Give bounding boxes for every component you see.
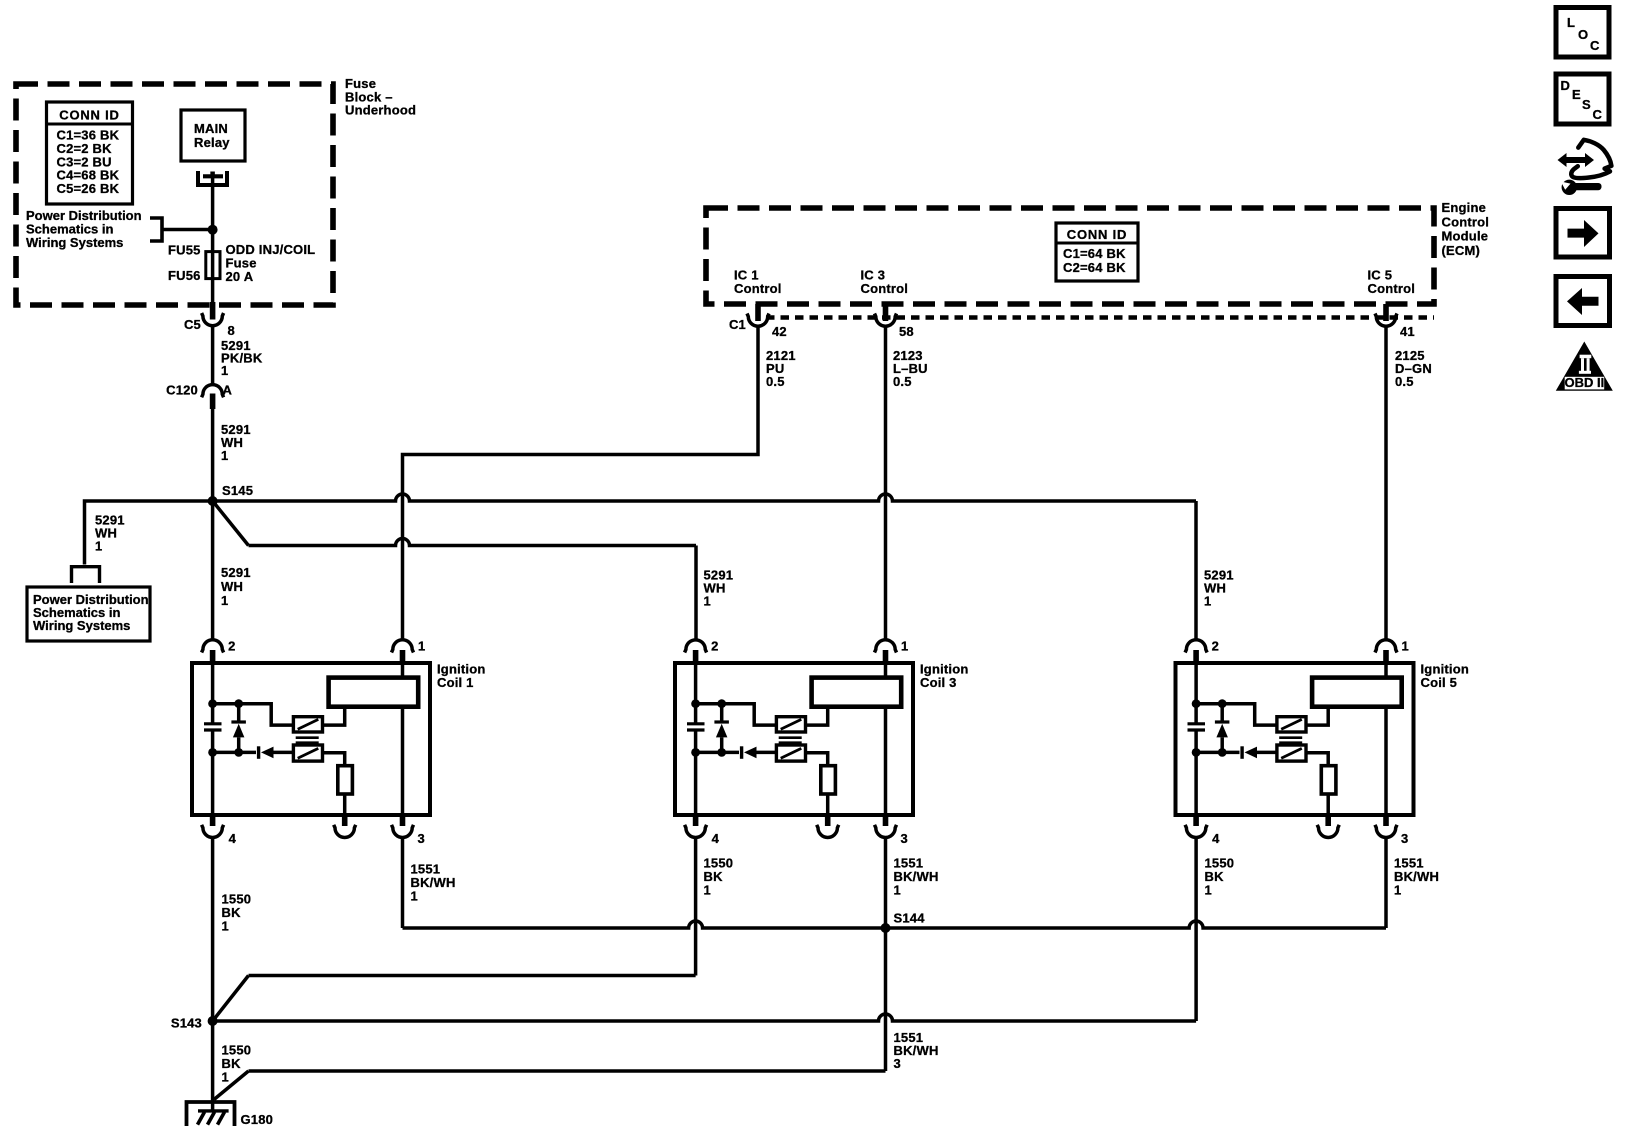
icon OBD II triangle [1556,342,1613,391]
wire driver 2 to sense resistor (coil 5) [1306,753,1328,766]
wire driver 2 to sense resistor (coil 3) [806,753,828,766]
power distribution reference bracket (bottom) [72,567,100,583]
svg-text:CONN ID: CONN ID [1067,227,1128,242]
svg-text:Wiring Systems: Wiring Systems [33,618,130,633]
wire relay terminal to junction [211,176,215,252]
fuse ODD INJ/COIL 20A symbol [206,252,220,279]
ignition coil 5 middle pin connector [1325,814,1331,826]
svg-text:C: C [1593,107,1603,122]
ignition coil 3 pin 4 connector [693,814,699,826]
capacitor (coil 3) [687,722,705,725]
node dots on supply wire (coil 5) [1192,699,1201,708]
ignition coil 1 pin 3 connector [400,814,406,826]
svg-text:Underhood: Underhood [345,103,416,118]
lower branch wire (coil 1) [213,751,256,755]
wire driver 2 to sense resistor (coil 1) [323,753,345,766]
main relay output terminal (U-bracket with T pin) [198,171,227,185]
ignition coil 5 internal supply wire pin2 [1194,663,1198,723]
svg-text:1: 1 [1204,594,1211,609]
wire 1550 BK coil3 pin4 down [694,837,698,975]
CONN ID table (fuse block) [47,102,133,204]
icon right arrow box [1556,209,1610,258]
driver module 1 (coil 3) [776,717,805,732]
node dots on supply wire (coil 1) [208,699,217,708]
ignition coil 3 box [675,663,913,815]
icon LOC box [1556,8,1609,58]
ignition coil 3 primary feed wire pin1 to winding [884,664,888,814]
zener diode (coil 5) [1220,704,1224,721]
svg-text:1: 1 [704,883,711,898]
svg-text:1: 1 [95,539,102,554]
node dots zener branch (coil 5) [1218,699,1227,708]
svg-text:58: 58 [899,324,914,339]
ignition coil 5 pin 1 connector [1375,640,1397,653]
ignition coil 5 pin 3 connector [1383,814,1389,826]
svg-text:1: 1 [221,363,228,378]
svg-text:C5=26 BK: C5=26 BK [57,181,120,196]
wire coil3 pin3 to S144 [884,837,888,928]
svg-text:Control: Control [1368,281,1416,296]
wire S145 left branch to power distribution reference [85,501,213,565]
interstage capacitor (coil 5) [1279,736,1302,739]
ignition coil 5 box [1176,663,1414,815]
driver module 2 (coil 1) [293,745,322,761]
svg-text:C120: C120 [166,383,198,398]
svg-text:0.5: 0.5 [1395,374,1414,389]
svg-text:2: 2 [228,639,235,654]
wire 1550 BK coil1 pin4 to S143 [211,837,215,1021]
svg-text:1: 1 [704,594,711,609]
wire 5291 PK/BK C5 to C120 [211,326,215,385]
svg-text:20 A: 20 A [226,269,254,284]
wire 5291 WH C120 to S145 [211,409,215,501]
svg-text:1: 1 [901,639,908,654]
wire coil5 pin3 down to 1551 run [1384,837,1388,928]
ECM pin 42 connector [755,304,761,321]
svg-text:Control: Control [734,281,782,296]
svg-text:0.5: 0.5 [766,374,785,389]
ignition coil 3 pin 2 connector [685,640,707,653]
wire supply node to driver 1 (coil 1) [213,704,294,725]
wire driver 1 to primary winding (coil 1) [323,707,345,725]
ECM pin 41 connector [1383,304,1389,321]
svg-text:C5: C5 [184,317,201,332]
connector C5 pin 8 [210,302,216,320]
svg-text:1: 1 [1205,883,1212,898]
wire fuse to connector C5 [211,279,215,303]
driver module 2 (coil 5) [1277,745,1306,761]
ignition coil 3 pin 3 connector [883,814,889,826]
wire S143 to coil5 pin4 (net 1550 BK) [213,1014,1197,1021]
interstage capacitor (coil 1) [296,736,319,739]
svg-text:CONN ID: CONN ID [59,108,120,123]
svg-text:C2=64 BK: C2=64 BK [1063,260,1126,275]
engine control module dashed box [706,208,1434,304]
svg-text:Control: Control [861,281,909,296]
diode (coil 1) [257,746,260,759]
driver module 1 (coil 5) [1277,717,1306,732]
svg-text:1: 1 [222,1070,229,1085]
ignition coil 5 primary feed wire pin1 to winding [1384,664,1388,814]
sense resistor (coil 5) [1321,766,1336,794]
svg-text:E: E [1572,87,1581,102]
ignition coil 1 pin 1 connector [392,640,414,653]
ignition coil 1 primary feed wire pin1 to winding [401,664,405,814]
power distribution schematics box [27,587,150,641]
svg-text:Relay: Relay [194,135,230,150]
svg-text:S145: S145 [222,483,253,498]
svg-text:42: 42 [772,324,787,339]
svg-text:Wiring Systems: Wiring Systems [26,235,123,250]
node dots zener branch (coil 1) [234,699,243,708]
wire S145 diagonal to coil 3 branch [213,501,249,546]
icon service tool (double arrow, panel outline, wrench) [1558,153,1595,167]
primary winding box (coil 1) [329,678,419,707]
svg-text:4: 4 [229,831,237,846]
wire supply node to driver 1 (coil 5) [1196,704,1277,725]
wire S145 to ignition coil 5 pin 2 (net 5291 WH) [213,494,1196,501]
svg-text:1: 1 [411,889,418,904]
interstage capacitor (coil 3) [779,736,802,739]
zener diode (coil 1) [237,704,241,721]
wire S144 down to 1551 BK/WH 3 run [884,928,888,1071]
svg-text:G180: G180 [241,1112,274,1127]
ignition coil 1 pin 2 connector [202,640,224,653]
ECM connector C1 dotted boundary line [766,315,1434,320]
svg-text:4: 4 [712,831,720,846]
svg-text:Coil 3: Coil 3 [920,675,957,690]
icon left arrow box [1556,277,1610,326]
driver module 1 (coil 1) [293,717,322,732]
svg-text:Engine: Engine [1442,200,1487,215]
wire coil3 pin4 run to S143 [249,974,696,978]
svg-text:O: O [1578,27,1588,42]
svg-text:A: A [223,383,233,398]
svg-text:S143: S143 [171,1016,202,1031]
svg-text:S: S [1582,97,1591,112]
svg-text:1: 1 [222,919,229,934]
svg-text:4: 4 [1212,831,1220,846]
svg-text:2: 2 [711,639,718,654]
MAIN Relay box [181,110,245,161]
diode (coil 5) [1240,746,1243,759]
svg-text:C: C [1590,38,1600,53]
svg-text:3: 3 [894,1056,901,1071]
wire 1550 BK S143 to ground G180 [211,1021,215,1111]
wire S145 to ignition coil 1 pin 2 [211,501,215,640]
capacitor (coil 1) [204,722,222,725]
wire driver 1 to primary winding (coil 5) [1306,707,1328,725]
diode (coil 3) [740,746,743,759]
ignition coil 1 box [192,663,430,815]
ground G180 symbol [187,1102,235,1126]
ignition coil 3 pin 1 connector [875,640,897,653]
net 1551 BK/WH 3 run to ground [249,1069,886,1073]
svg-text:1: 1 [1394,883,1401,898]
svg-text:S144: S144 [894,911,926,926]
svg-text:Control: Control [1442,214,1490,229]
svg-text:MAIN: MAIN [194,121,228,136]
ignition coil 1 pin 4 connector [210,814,216,826]
splice S144 [881,923,891,933]
svg-text:WH: WH [221,579,243,594]
splice S143 [208,1016,218,1026]
svg-text:0.5: 0.5 [893,374,912,389]
power distribution reference bracket (top) [150,218,162,241]
ignition coil 3 internal supply wire pin2 [694,663,698,723]
ignition coil 3 middle pin connector [825,814,831,826]
CONN ID table (ECM) [1056,223,1138,281]
node dots on supply wire (coil 3) [691,699,700,708]
fuse block underhood dashed box [16,84,333,305]
svg-text:2: 2 [1212,639,1219,654]
wire driver 1 to primary winding (coil 3) [806,707,828,725]
svg-text:D: D [1561,78,1571,93]
svg-text:8: 8 [228,323,235,338]
ignition coil 1 internal supply wire pin2 [211,663,215,723]
primary winding box (coil 5) [1312,678,1402,707]
primary winding box (coil 3) [812,678,902,707]
connector C120 pin A [202,385,224,398]
svg-text:1: 1 [1402,639,1409,654]
sense resistor (coil 1) [338,766,353,794]
lower branch wire (coil 5) [1196,751,1239,755]
wire resistor to middle pin (coil 5) [1326,794,1330,814]
svg-text:Coil 1: Coil 1 [437,675,474,690]
wire to ignition coil 3 pin 2 (net 5291 WH) [249,539,697,546]
svg-text:FU56: FU56 [168,268,201,283]
wire resistor to middle pin (coil 1) [343,794,347,814]
svg-text:L: L [1567,15,1575,30]
splice S145 [208,496,218,506]
sense resistor (coil 3) [821,766,836,794]
svg-text:OBD II: OBD II [1565,375,1605,390]
zener diode (coil 3) [720,704,724,721]
wire 2125 D-GN pin41 to coil5 pin1 [1384,326,1388,640]
driver module 2 (coil 3) [776,745,805,761]
wire 2123 L-BU pin58 to coil3 pin1 [884,326,888,640]
wire 1551 BK/WH coil1 pin3 to S144 run [401,837,405,928]
wire supply node to driver 1 (coil 3) [696,704,777,725]
svg-text:C1: C1 [729,317,746,332]
ignition coil 1 middle pin connector [342,814,348,826]
svg-text:1: 1 [221,448,228,463]
net 1551 horizontal run coil1-S144-coil5 [403,921,1387,928]
icon DESC box [1556,74,1609,124]
ignition coil 5 pin 2 connector [1185,640,1207,653]
wire 2121 PU pin42 to coil1 pin1 [403,326,759,640]
svg-text:5291: 5291 [221,565,251,580]
wire resistor to middle pin (coil 3) [826,794,830,814]
svg-text:C1=64 BK: C1=64 BK [1063,246,1126,261]
svg-text:Coil 5: Coil 5 [1421,675,1458,690]
svg-text:41: 41 [1400,324,1415,339]
svg-text:1: 1 [221,593,228,608]
svg-text:Module: Module [1442,229,1489,244]
capacitor (coil 5) [1188,722,1206,725]
svg-text:1: 1 [418,639,425,654]
svg-text:3: 3 [901,831,908,846]
node dots zener branch (coil 3) [717,699,726,708]
svg-text:1: 1 [894,883,901,898]
lower branch wire (coil 3) [696,751,739,755]
svg-text:(ECM): (ECM) [1442,243,1481,258]
ignition coil 5 pin 4 connector [1193,814,1199,826]
ECM pin 58 connector [883,304,889,321]
svg-text:FU55: FU55 [168,243,201,258]
svg-text:3: 3 [418,831,425,846]
junction dot at relay/fuse wire [208,225,218,235]
svg-text:3: 3 [1401,831,1408,846]
